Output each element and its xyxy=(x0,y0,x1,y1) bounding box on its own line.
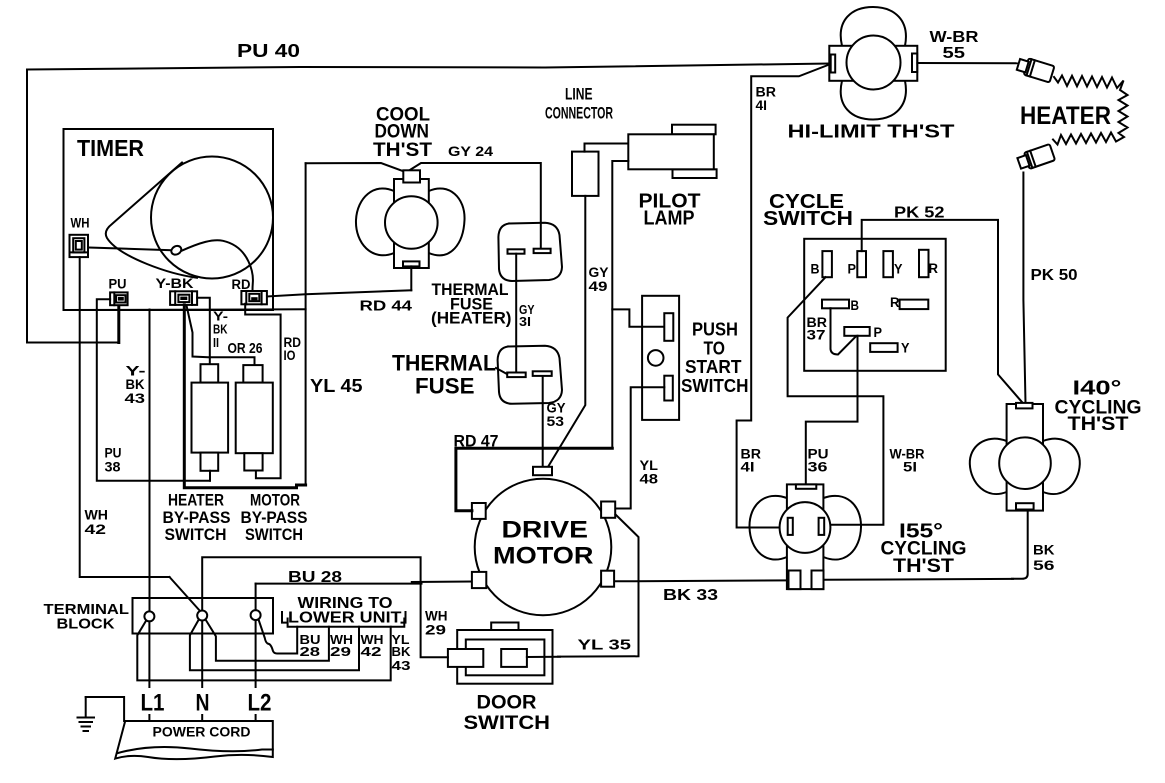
svg-text:HEATER: HEATER xyxy=(168,491,224,510)
wire W-BR 55 xyxy=(917,62,1021,64)
svg-text:MOTOR: MOTOR xyxy=(250,491,300,510)
cycle switch contact P (mid) xyxy=(844,327,869,336)
terminal block box xyxy=(133,598,274,634)
wire BK 56 xyxy=(1012,510,1028,579)
drive motor right lower tab xyxy=(601,571,614,587)
cycle switch contact R (mid) xyxy=(900,300,929,310)
thermal fuse right contact xyxy=(533,371,552,376)
wire WH 42 diagonal into N xyxy=(170,577,201,612)
wire branch to push-to-start top terminal xyxy=(612,309,664,326)
timer cam teardrop xyxy=(106,163,197,278)
svg-text:TH'ST: TH'ST xyxy=(1068,414,1129,435)
timer box xyxy=(64,129,274,310)
svg-text:(HEATER): (HEATER) xyxy=(431,309,512,328)
drive motor left lower tab xyxy=(472,572,486,588)
label L2 xyxy=(244,688,275,717)
wire RD 10 (RD terminal to motor by-pass bottom) xyxy=(245,304,280,479)
drive motor circle xyxy=(475,479,612,616)
cycle switch terminal R (top) xyxy=(919,250,929,277)
wire Y-BK thick from Y-BK terminal down to heater by-pass bottom bus xyxy=(184,305,305,488)
label L1 xyxy=(138,688,167,717)
svg-text:LOWER UNIT: LOWER UNIT xyxy=(288,610,402,627)
wire pilot lamp down to RD47 junction (with branch to push-to-start) xyxy=(612,161,628,448)
power cord fold line xyxy=(118,747,273,753)
svg-text:28: 28 xyxy=(300,644,321,659)
svg-text:43: 43 xyxy=(125,391,146,406)
wire WH 29 (N to door switch) xyxy=(202,557,448,657)
svg-text:53: 53 xyxy=(547,414,565,429)
labels BU 28 WH 29 WH 42 YL BK 43 (columns) xyxy=(300,632,412,673)
heater bottom connector xyxy=(1016,144,1055,171)
wire lower-unit column WH29 from N xyxy=(206,620,329,661)
wire YL 35 (motor right tab to door switch) xyxy=(558,515,639,657)
svg-text:OR 26: OR 26 xyxy=(228,340,263,357)
svg-text:55: 55 xyxy=(943,45,966,62)
wire N down to power cord xyxy=(201,621,203,722)
svg-text:THERMAL: THERMAL xyxy=(392,351,496,376)
svg-text:DRIVE: DRIVE xyxy=(502,516,589,543)
bracket marks around LOWER UNIT xyxy=(282,612,286,623)
svg-text:Y: Y xyxy=(901,340,910,355)
terminal L2 circle xyxy=(251,610,261,620)
push to start button circle xyxy=(648,350,664,366)
terminal Y-BK (timer) xyxy=(170,291,197,305)
svg-text:BU 28: BU 28 xyxy=(288,569,342,586)
svg-text:SWITCH: SWITCH xyxy=(245,525,303,544)
wire PK 50 xyxy=(1023,173,1025,403)
wire BU 28 (L2 to lower unit bus and up) xyxy=(256,583,422,585)
svg-text:RD 47: RD 47 xyxy=(454,432,499,451)
ground symbol xyxy=(78,697,125,731)
wire line connector top to pilot lamp xyxy=(585,144,629,152)
cool down thermostat xyxy=(356,170,465,268)
svg-text:49: 49 xyxy=(589,279,608,294)
wire B contact to P contact (internal) xyxy=(831,308,857,354)
svg-text:PK 50: PK 50 xyxy=(1031,267,1078,284)
thermal fuse (heater) left contact xyxy=(508,249,525,253)
wire WH 42 vertical xyxy=(80,257,170,577)
terminal RD (timer) xyxy=(241,291,267,304)
hi-limit thermostat xyxy=(829,7,917,120)
wire WH terminal to pivot xyxy=(89,248,171,251)
svg-text:P: P xyxy=(874,325,883,340)
wire YL 45 vertical xyxy=(305,163,307,485)
svg-text:W-BR: W-BR xyxy=(930,29,979,46)
thermal fuse left contact xyxy=(507,373,526,378)
wire lower-unit column BU28 from L2 xyxy=(259,620,298,654)
svg-text:29: 29 xyxy=(425,623,446,638)
terminal L1 circle xyxy=(144,611,154,621)
wire BK 33 (left segment to WH29 junction) xyxy=(412,581,472,584)
wire PU 40 (riser into PU terminal) xyxy=(117,305,120,342)
wire GY 24 (right segment to thermal fuse heater) xyxy=(408,163,541,249)
svg-text:HI-LIMIT TH'ST: HI-LIMIT TH'ST xyxy=(788,122,955,142)
cycle switch contact B (mid) xyxy=(822,300,849,309)
svg-text:SWITCH: SWITCH xyxy=(763,207,853,230)
drive motor right upper tab xyxy=(601,502,615,518)
cycle switch terminal P (top) xyxy=(857,251,866,277)
leader line THERMAL FUSE xyxy=(496,368,507,374)
svg-text:B: B xyxy=(811,262,820,277)
wire PU 40 (left border down and to PU terminal bottom) xyxy=(27,70,119,343)
cycle switch terminal Y (top) xyxy=(883,251,893,277)
svg-text:BK: BK xyxy=(126,377,145,392)
svg-text:Y: Y xyxy=(894,262,903,277)
push to start bottom terminal xyxy=(664,376,673,401)
svg-text:PU: PU xyxy=(105,446,122,461)
terminal WH (timer) xyxy=(70,235,89,257)
svg-text:GY: GY xyxy=(589,265,609,280)
cycle switch contact Y (mid) xyxy=(870,343,897,352)
svg-text:II: II xyxy=(213,336,219,350)
140 cycling thermostat xyxy=(970,403,1080,511)
svg-text:SWITCH: SWITCH xyxy=(165,525,227,544)
thermal fuse (heater) right contact xyxy=(534,249,551,253)
svg-text:5I: 5I xyxy=(903,460,917,475)
wire PU 36 (P contact to 155 thermostat top) xyxy=(806,336,858,485)
svg-text:PUSH: PUSH xyxy=(692,319,738,340)
svg-text:L1: L1 xyxy=(141,690,165,717)
wire GY 53 xyxy=(542,377,544,467)
svg-text:29: 29 xyxy=(330,644,351,659)
push to start top terminal xyxy=(664,313,673,341)
wire Y-BK 11 (Y-BK terminal right, down to heater by-pass top) xyxy=(197,298,210,366)
svg-text:P: P xyxy=(848,262,857,277)
heater element zigzag xyxy=(1053,76,1128,145)
svg-text:BK: BK xyxy=(392,644,412,659)
drive motor top tab xyxy=(533,467,552,475)
svg-text:TH'ST: TH'ST xyxy=(893,556,954,577)
svg-text:MOTOR: MOTOR xyxy=(493,542,594,569)
motor by-pass switch xyxy=(236,365,273,470)
svg-text:CONNECTOR: CONNECTOR xyxy=(545,105,613,123)
cycle switch box xyxy=(804,239,946,371)
svg-text:L2: L2 xyxy=(248,690,272,717)
wire RD 47 xyxy=(456,447,612,511)
thermal fuse (heater) blob xyxy=(498,223,562,281)
wire PK 52 (P terminal to 140 thermostat) xyxy=(862,220,1022,402)
svg-text:PK 52: PK 52 xyxy=(894,204,945,221)
svg-text:SWITCH: SWITCH xyxy=(464,712,551,734)
wire BR 41 (hi-limit to 155 cycling thermostat) xyxy=(737,65,830,528)
svg-text:YL 35: YL 35 xyxy=(578,636,632,653)
svg-text:FUSE: FUSE xyxy=(415,374,475,399)
pilot lamp xyxy=(628,125,716,178)
wire BK 33 (motor to 155 thermostat and BK56 corner) xyxy=(615,579,789,582)
svg-text:TH'ST: TH'ST xyxy=(373,139,432,161)
wire Y-BK 43 (to terminal block L1) xyxy=(149,310,151,612)
svg-text:Y-: Y- xyxy=(213,310,228,324)
svg-text:SWITCH: SWITCH xyxy=(681,375,749,396)
svg-text:TIMER: TIMER xyxy=(77,135,144,161)
svg-text:37: 37 xyxy=(807,328,826,343)
svg-text:42: 42 xyxy=(85,522,107,537)
wire B terminal diagonal to W-BR 51 xyxy=(788,277,884,525)
svg-text:LAMP: LAMP xyxy=(644,208,695,230)
wire OR 26 (to motor by-pass top) xyxy=(210,357,255,365)
wire Y-BK terminal diagonal branch xyxy=(187,306,210,358)
svg-text:YL 45: YL 45 xyxy=(310,376,363,396)
svg-text:B: B xyxy=(851,298,860,313)
155 cycling thermostat xyxy=(749,484,861,589)
svg-text:43: 43 xyxy=(392,658,411,673)
svg-text:DOOR: DOOR xyxy=(477,691,537,713)
svg-text:IO: IO xyxy=(284,348,296,363)
wire timer bottom bus to YL45 vertical xyxy=(64,308,306,311)
svg-text:GY 24: GY 24 xyxy=(448,143,493,159)
wire PU 40 (top horizontal) xyxy=(27,64,830,70)
svg-text:3I: 3I xyxy=(519,315,531,329)
svg-text:WH: WH xyxy=(85,508,109,523)
svg-text:4I: 4I xyxy=(741,460,755,475)
cycle switch terminal B (top) xyxy=(822,251,832,277)
power cord banner xyxy=(115,721,273,759)
drive motor left upper tab xyxy=(472,503,486,519)
svg-text:PU 40: PU 40 xyxy=(237,41,300,61)
wire PU 38 xyxy=(97,299,210,481)
svg-text:N: N xyxy=(196,690,210,717)
wire lower-unit column WH42 from N xyxy=(190,620,359,671)
svg-text:POWER CORD: POWER CORD xyxy=(153,724,251,739)
svg-text:BK: BK xyxy=(213,323,228,337)
svg-text:PU: PU xyxy=(109,277,127,292)
svg-text:LINE: LINE xyxy=(565,86,593,104)
wire GY 49 xyxy=(549,196,586,466)
line connector xyxy=(572,152,599,196)
wire L1 down to power cord xyxy=(148,621,150,721)
wire YL 48 xyxy=(616,387,665,508)
svg-text:RD 44: RD 44 xyxy=(360,298,413,315)
wire RD 44 (cool down bottom to YL45 vertical) xyxy=(410,266,412,290)
wire GY 31 xyxy=(515,254,517,373)
wire timer cam to RD terminal xyxy=(182,240,253,291)
timer pivot circle xyxy=(170,244,183,256)
push to start switch box xyxy=(642,296,679,420)
thermal fuse blob xyxy=(498,346,562,404)
svg-text:Y-BK: Y-BK xyxy=(156,276,194,291)
terminal PU (timer) xyxy=(110,292,128,305)
door switch xyxy=(448,623,560,684)
svg-text:R: R xyxy=(929,261,939,276)
wire GY 24 (left segment from YL45 top corner) xyxy=(306,163,404,172)
wire RD terminal to RD44 junction xyxy=(267,290,411,296)
label N xyxy=(193,688,212,717)
svg-text:42: 42 xyxy=(361,644,382,659)
terminal N circle xyxy=(197,611,207,621)
svg-text:R: R xyxy=(890,295,900,310)
timer cam circle xyxy=(151,157,273,279)
heater top connector xyxy=(1016,56,1054,82)
svg-text:BK: BK xyxy=(1033,542,1055,557)
svg-text:RD: RD xyxy=(232,277,251,292)
svg-text:4I: 4I xyxy=(756,98,768,113)
svg-text:HEATER: HEATER xyxy=(1020,102,1111,130)
wire L2 down to power cord xyxy=(255,620,257,721)
lower unit under-bracket xyxy=(288,619,405,627)
svg-text:WH: WH xyxy=(71,216,90,231)
svg-text:38: 38 xyxy=(105,460,122,475)
svg-text:WH: WH xyxy=(425,609,448,624)
svg-text:36: 36 xyxy=(808,460,829,475)
svg-text:BLOCK: BLOCK xyxy=(57,616,115,633)
svg-text:48: 48 xyxy=(640,472,659,487)
wire lower-unit column YL-BK-43 from L1 xyxy=(137,621,390,681)
svg-text:56: 56 xyxy=(1033,558,1055,573)
heater by-pass switch xyxy=(192,364,229,481)
svg-text:BK 33: BK 33 xyxy=(663,587,718,604)
